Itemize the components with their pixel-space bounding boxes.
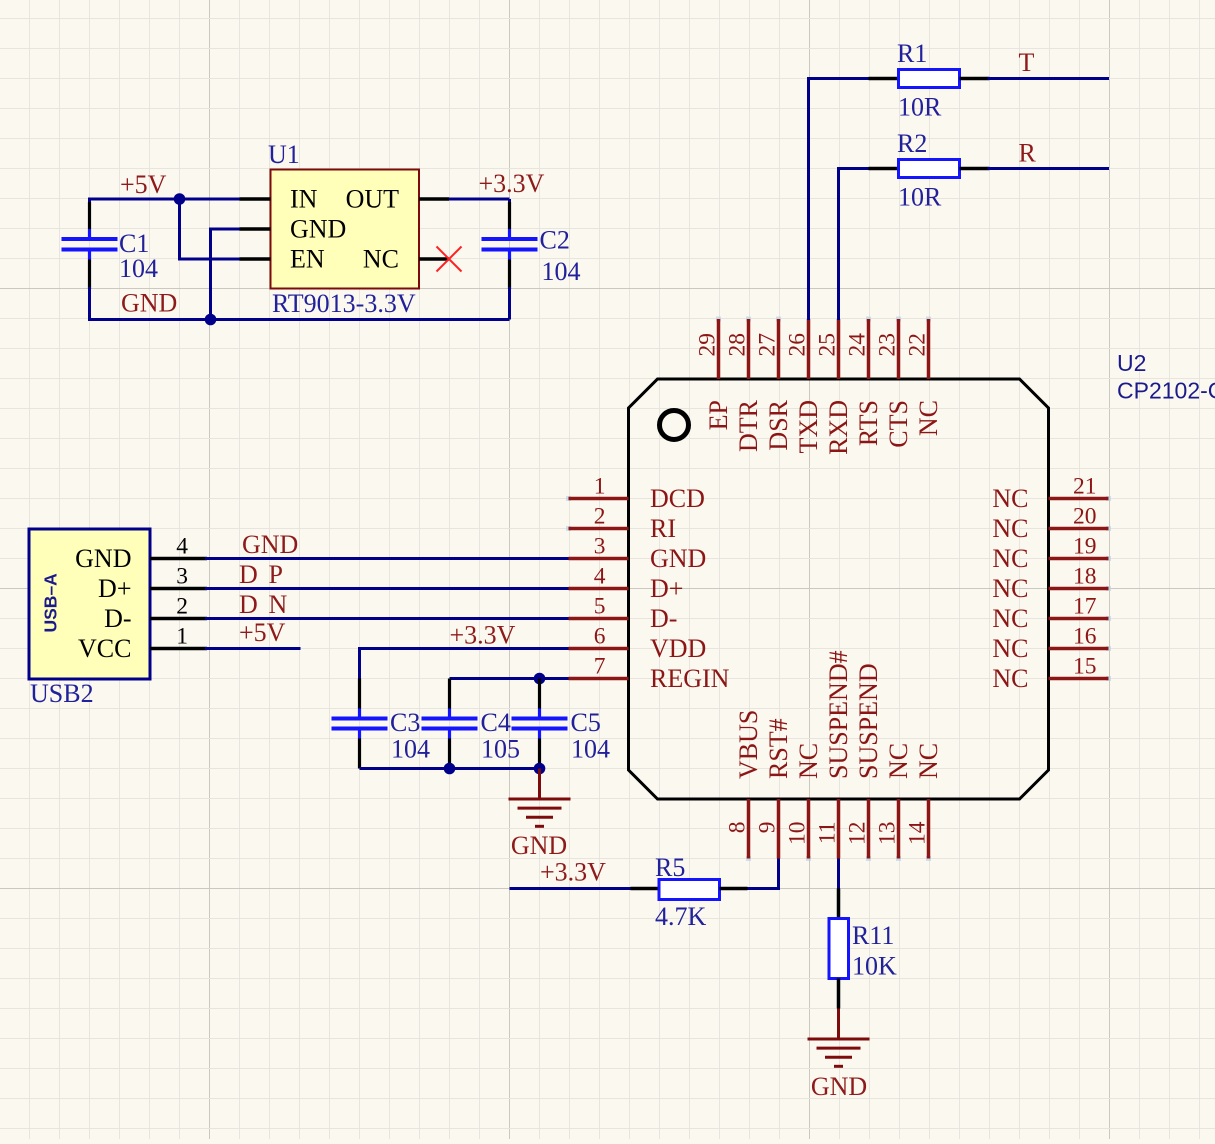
wire D_P net bbox=[205, 587, 569, 590]
svg-text:17: 17 bbox=[1073, 594, 1097, 620]
svg-text:CTS: CTS bbox=[884, 400, 913, 448]
capacitor C5 bbox=[512, 679, 568, 769]
svg-text:NC: NC bbox=[992, 634, 1028, 663]
label C1 bbox=[119, 229, 149, 258]
svg-text:GND: GND bbox=[242, 530, 298, 559]
svg-text:U1: U1 bbox=[268, 140, 300, 169]
pin DCD (U2 pin 1) bbox=[566, 474, 705, 514]
svg-text:13: 13 bbox=[875, 822, 901, 846]
svg-text:RT9013-3.3V: RT9013-3.3V bbox=[272, 289, 416, 318]
svg-text:5: 5 bbox=[594, 594, 606, 620]
svg-text:SUSPEND: SUSPEND bbox=[854, 663, 883, 779]
svg-text:104: 104 bbox=[391, 735, 430, 764]
svg-text:9: 9 bbox=[755, 822, 781, 834]
svg-text:2: 2 bbox=[176, 594, 188, 620]
pin NC (U2 pin 10) bbox=[785, 743, 824, 861]
pin NC (U2 pin 16) bbox=[992, 624, 1111, 664]
wire +3.3V to R5 bbox=[510, 887, 660, 890]
svg-text:RI: RI bbox=[650, 514, 676, 543]
svg-text:10R: 10R bbox=[898, 183, 942, 212]
svg-text:NC: NC bbox=[914, 743, 943, 779]
svg-text:3: 3 bbox=[594, 534, 606, 560]
pin VCC (USB2 pin 1) bbox=[78, 624, 207, 664]
pin NC (U2 pin 22) bbox=[905, 317, 944, 437]
wire +5V rail bbox=[88, 198, 241, 201]
svg-text:T: T bbox=[1019, 48, 1035, 77]
pin RXD (U2 pin 25) bbox=[815, 319, 854, 455]
svg-text:3: 3 bbox=[176, 564, 188, 590]
svg-text:NC: NC bbox=[992, 514, 1028, 543]
resistor R1 bbox=[869, 70, 990, 88]
svg-text:U2: U2 bbox=[1117, 350, 1146, 376]
svg-text:1: 1 bbox=[594, 474, 606, 500]
net label +3.3V (R5) bbox=[540, 858, 606, 887]
svg-text:C3: C3 bbox=[390, 708, 420, 737]
designator R1 bbox=[897, 39, 927, 68]
svg-text:IN: IN bbox=[290, 185, 318, 214]
svg-text:NC: NC bbox=[992, 604, 1028, 633]
svg-text:D: D bbox=[239, 560, 258, 589]
svg-text:R11: R11 bbox=[852, 921, 894, 950]
svg-text:22: 22 bbox=[905, 333, 931, 357]
net label +5V (U1 input) bbox=[120, 170, 167, 199]
svg-text:D+: D+ bbox=[650, 574, 683, 603]
svg-text:NC: NC bbox=[992, 484, 1028, 513]
svg-text:NC: NC bbox=[992, 544, 1028, 573]
svg-text:4: 4 bbox=[594, 564, 606, 590]
wire capacitor ground bus bbox=[360, 767, 540, 770]
pin TXD (U2 pin 26) bbox=[785, 319, 824, 453]
svg-text:25: 25 bbox=[815, 333, 841, 357]
junction C5 ground bbox=[534, 763, 546, 775]
designator U2 bbox=[1117, 350, 1146, 376]
svg-text:GND: GND bbox=[121, 289, 177, 318]
pin D- (U2 pin 5) bbox=[569, 594, 678, 634]
net label T bbox=[1019, 48, 1035, 77]
svg-text:4: 4 bbox=[176, 534, 188, 560]
wire T net bbox=[988, 77, 1110, 80]
designator R2 bbox=[897, 129, 927, 158]
wire U1 GND pin to ground rail bbox=[211, 229, 240, 320]
svg-text:EN: EN bbox=[290, 245, 325, 274]
svg-text:19: 19 bbox=[1073, 534, 1097, 560]
pin RTS (U2 pin 24) bbox=[845, 317, 884, 447]
pin NC (U1) bbox=[363, 245, 449, 274]
wire D_N net bbox=[205, 617, 569, 620]
svg-text:23: 23 bbox=[875, 333, 901, 357]
svg-text:NC: NC bbox=[992, 664, 1028, 693]
net label GND bbox=[242, 530, 298, 559]
svg-text:104: 104 bbox=[571, 735, 610, 764]
svg-text:7: 7 bbox=[594, 654, 606, 680]
svg-text:P: P bbox=[269, 560, 283, 589]
pin NC (U2 pin 15) bbox=[992, 654, 1111, 694]
net label D_P bbox=[239, 560, 283, 589]
svg-text:10: 10 bbox=[785, 822, 811, 846]
pin NC (U2 pin 19) bbox=[992, 534, 1111, 574]
wire GND net bbox=[205, 557, 569, 560]
label C5 bbox=[571, 708, 601, 737]
label C4 bbox=[481, 708, 511, 737]
svg-text:D-: D- bbox=[104, 604, 131, 633]
value 4.7K (R5) bbox=[655, 902, 707, 931]
svg-text:104: 104 bbox=[542, 257, 581, 286]
value 105 (C4) bbox=[481, 735, 520, 764]
svg-text:+5V: +5V bbox=[120, 170, 167, 199]
svg-text:4.7K: 4.7K bbox=[655, 902, 707, 931]
capacitor C1 bbox=[62, 199, 118, 320]
wire TXD net to R1 bbox=[809, 79, 869, 321]
pin DSR (U2 pin 27) bbox=[755, 317, 794, 451]
wire R5 to RST# pin 9 bbox=[748, 859, 779, 889]
svg-text:D: D bbox=[239, 590, 258, 619]
svg-text:CP2102-GM: CP2102-GM bbox=[1117, 378, 1215, 404]
net label +3.3V (VDD) bbox=[450, 621, 516, 650]
svg-text:VBUS: VBUS bbox=[734, 710, 763, 779]
svg-text:REGIN: REGIN bbox=[650, 664, 730, 693]
svg-text:NC: NC bbox=[992, 574, 1028, 603]
ground symbol (capacitor bus) bbox=[509, 769, 571, 827]
pin VBUS (U2 pin 8) bbox=[725, 710, 764, 861]
value 10R (R1) bbox=[898, 93, 942, 122]
value 10K (R11) bbox=[852, 952, 897, 981]
svg-text:C2: C2 bbox=[540, 226, 570, 255]
svg-text:15: 15 bbox=[1073, 654, 1097, 680]
svg-text:NC: NC bbox=[884, 743, 913, 779]
pin IN (U1) bbox=[240, 185, 318, 214]
svg-text:GND: GND bbox=[511, 831, 567, 860]
svg-text:105: 105 bbox=[481, 735, 520, 764]
value CP2102-G (U2) bbox=[1117, 378, 1215, 404]
value RT9013-3.3V bbox=[272, 289, 416, 318]
svg-text:21: 21 bbox=[1073, 474, 1097, 500]
svg-text:28: 28 bbox=[725, 333, 751, 357]
label C2 bbox=[540, 226, 570, 255]
designator USB2 bbox=[30, 679, 94, 708]
ic U2 body outline bbox=[629, 379, 1049, 799]
junction C4 ground bbox=[444, 763, 456, 775]
resistor R11 bbox=[829, 889, 849, 1009]
svg-text:C5: C5 bbox=[571, 708, 601, 737]
pin GND (U1) bbox=[240, 215, 347, 244]
svg-text:104: 104 bbox=[119, 254, 158, 283]
svg-text:R: R bbox=[1019, 139, 1037, 168]
svg-text:DSR: DSR bbox=[764, 399, 793, 450]
svg-text:NC: NC bbox=[914, 400, 943, 436]
pin DTR (U2 pin 28) bbox=[725, 317, 764, 453]
wire ground rail (U1 section) bbox=[88, 318, 510, 321]
svg-text:D-: D- bbox=[650, 604, 677, 633]
svg-text:+3.3V: +3.3V bbox=[479, 169, 545, 198]
svg-text:EP: EP bbox=[704, 400, 733, 430]
connector USB2 body bbox=[29, 529, 150, 679]
svg-text:DCD: DCD bbox=[650, 484, 705, 513]
pin EP (U2 pin 29) bbox=[695, 317, 734, 431]
svg-text:12: 12 bbox=[845, 822, 871, 846]
pin VDD (U2 pin 6) bbox=[569, 624, 707, 664]
pin D+ (U2 pin 4) bbox=[569, 564, 684, 604]
pin GND (U2 pin 3) bbox=[569, 534, 707, 574]
pin GND (USB2 pin 4) bbox=[75, 534, 207, 574]
pin D+ (USB2 pin 3) bbox=[98, 564, 207, 604]
svg-text:18: 18 bbox=[1073, 564, 1097, 590]
junction +5V node bbox=[174, 193, 186, 205]
svg-text:16: 16 bbox=[1073, 624, 1097, 650]
svg-text:NC: NC bbox=[363, 245, 399, 274]
svg-text:USB–A: USB–A bbox=[41, 573, 61, 633]
wire RXD net to R2 bbox=[839, 169, 869, 321]
svg-text:+3.3V: +3.3V bbox=[540, 858, 606, 887]
wire OUT to +3.3V bbox=[449, 198, 510, 201]
svg-text:20: 20 bbox=[1073, 504, 1097, 530]
svg-text:GND: GND bbox=[811, 1072, 867, 1101]
wire R net bbox=[988, 167, 1110, 170]
net label +5V (USB) bbox=[239, 618, 286, 647]
svg-text:C4: C4 bbox=[481, 708, 511, 737]
designator R5 bbox=[655, 853, 685, 882]
pin NC (U2 pin 17) bbox=[992, 594, 1111, 634]
label USB-A bbox=[41, 573, 61, 633]
resistor R5 bbox=[631, 880, 748, 900]
pin NC (U2 pin 13) bbox=[875, 743, 914, 861]
svg-text:24: 24 bbox=[845, 333, 871, 357]
ground symbol (R11) bbox=[808, 1009, 870, 1067]
net label D_N bbox=[239, 590, 288, 619]
svg-text:R2: R2 bbox=[897, 129, 927, 158]
svg-text:SUSPEND#: SUSPEND# bbox=[824, 650, 853, 779]
svg-text:VCC: VCC bbox=[78, 634, 131, 663]
svg-text:27: 27 bbox=[755, 333, 781, 357]
net label GND (R11) bbox=[811, 1072, 867, 1101]
svg-text:+3.3V: +3.3V bbox=[450, 621, 516, 650]
pin RST# (U2 pin 9) bbox=[755, 718, 794, 858]
svg-text:6: 6 bbox=[594, 624, 606, 650]
junction REGIN node bbox=[534, 673, 546, 685]
svg-text:NC: NC bbox=[794, 743, 823, 779]
svg-text:29: 29 bbox=[695, 333, 721, 357]
svg-text:TXD: TXD bbox=[794, 400, 823, 453]
resistor R2 bbox=[869, 160, 990, 178]
svg-text:11: 11 bbox=[815, 822, 841, 845]
svg-text:RTS: RTS bbox=[854, 400, 883, 446]
pin REGIN (U2 pin 7) bbox=[569, 654, 730, 694]
pin-1 indicator circle (U2) bbox=[660, 411, 689, 440]
pin NC (U2 pin 18) bbox=[992, 564, 1111, 604]
wire +5V to EN bbox=[180, 199, 240, 259]
junction ground rail bbox=[205, 314, 217, 326]
svg-text:+5V: +5V bbox=[239, 618, 286, 647]
label C3 bbox=[390, 708, 420, 737]
pin CTS (U2 pin 23) bbox=[875, 317, 914, 448]
capacitor C2 bbox=[482, 199, 538, 320]
svg-text:14: 14 bbox=[905, 821, 931, 845]
svg-text:R5: R5 bbox=[655, 853, 685, 882]
value 104 (C1) bbox=[119, 254, 158, 283]
designator U1 bbox=[268, 140, 300, 169]
designator R11 bbox=[852, 921, 894, 950]
svg-text:2: 2 bbox=[594, 504, 606, 530]
wire SUSPEND# pin 11 to R11 bbox=[837, 859, 840, 890]
pin SUSPEND# (U2 pin 11) bbox=[815, 650, 854, 858]
capacitor C4 bbox=[422, 679, 478, 769]
net label R bbox=[1019, 139, 1037, 168]
pin NC (U2 pin 14) bbox=[905, 743, 944, 861]
no-connect X (U1 NC) bbox=[437, 247, 462, 272]
svg-text:VDD: VDD bbox=[650, 634, 706, 663]
svg-text:26: 26 bbox=[785, 333, 811, 357]
pin EN (U1) bbox=[240, 245, 325, 274]
regulator U1 body bbox=[271, 170, 420, 289]
svg-text:GND: GND bbox=[650, 544, 706, 573]
svg-text:10K: 10K bbox=[852, 952, 897, 981]
wire +5V net (VCC) bbox=[205, 647, 301, 650]
value 10R (R2) bbox=[898, 183, 942, 212]
svg-text:OUT: OUT bbox=[346, 185, 400, 214]
svg-text:8: 8 bbox=[725, 822, 751, 834]
wire REGIN net bbox=[450, 677, 569, 680]
net label +3.3V (U1 output) bbox=[479, 169, 545, 198]
value 104 (C5) bbox=[571, 735, 610, 764]
svg-text:1: 1 bbox=[176, 624, 188, 650]
pin SUSPEND (U2 pin 12) bbox=[845, 663, 884, 861]
svg-text:RXD: RXD bbox=[824, 400, 853, 455]
pin NC (U2 pin 20) bbox=[992, 504, 1111, 544]
value 104 (C3) bbox=[391, 735, 430, 764]
capacitor C3 bbox=[332, 679, 388, 769]
svg-text:D+: D+ bbox=[98, 574, 131, 603]
value 104 (C2) bbox=[542, 257, 581, 286]
pin OUT (U1) bbox=[346, 185, 449, 214]
wire VDD net bbox=[360, 649, 569, 679]
pin RI (U2 pin 2) bbox=[566, 504, 676, 544]
pin NC (U2 pin 21) bbox=[992, 474, 1111, 514]
svg-text:10R: 10R bbox=[898, 93, 942, 122]
svg-text:DTR: DTR bbox=[734, 399, 763, 452]
svg-text:GND: GND bbox=[290, 215, 346, 244]
net label GND (U1 section) bbox=[121, 289, 177, 318]
svg-text:USB2: USB2 bbox=[30, 679, 94, 708]
net label GND (capacitor bus) bbox=[511, 831, 567, 860]
svg-text:N: N bbox=[269, 590, 288, 619]
svg-text:R1: R1 bbox=[897, 39, 927, 68]
svg-text:GND: GND bbox=[75, 544, 131, 573]
svg-text:RST#: RST# bbox=[764, 718, 793, 779]
pin D- (USB2 pin 2) bbox=[104, 594, 207, 634]
